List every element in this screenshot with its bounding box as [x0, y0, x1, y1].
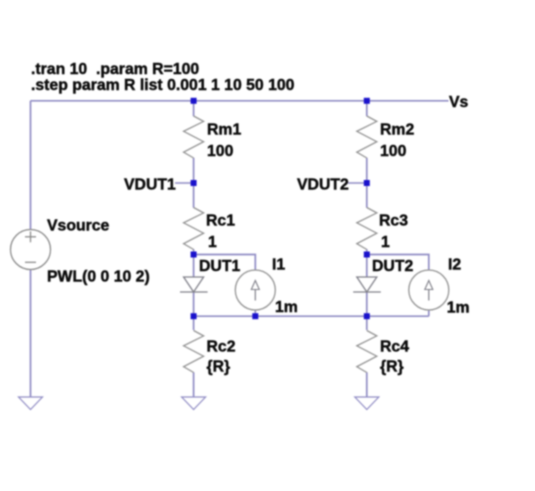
node top branch2 — [364, 98, 370, 104]
svg-text:1: 1 — [381, 234, 390, 251]
svg-text:DUT2: DUT2 — [372, 258, 413, 275]
svg-text:100: 100 — [380, 143, 407, 160]
resistor Rm2 — [357, 116, 377, 158]
svg-text:1: 1 — [208, 234, 217, 251]
wire left vertical lower — [30, 270, 32, 397]
svg-text:Rc4: Rc4 — [380, 339, 409, 356]
svg-text:Vs: Vs — [449, 94, 469, 111]
wire Rm2 to Rc3 through node VDUT2 — [366, 158, 368, 208]
wire Rc4 to ground — [366, 372, 368, 397]
wire VDUT2 label stub — [348, 182, 364, 184]
svg-text:.tran 10 .param R=100: .tran 10 .param R=100 — [31, 61, 199, 78]
resistor Rc3 — [357, 208, 377, 250]
resistor Rm1 — [184, 116, 204, 158]
wire branch2 top to Rm2 — [366, 101, 368, 116]
wire I2 hook — [367, 255, 429, 271]
wire Rc3 to DUT2 anode — [366, 249, 368, 277]
node branch2 mid — [364, 252, 370, 258]
wire I2 bottom stub — [428, 310, 430, 316]
svg-text:{R}: {R} — [380, 359, 404, 376]
node top branch1 — [191, 98, 197, 104]
svg-text:Rm2: Rm2 — [380, 122, 414, 139]
wire bottom rail — [194, 315, 429, 317]
node branch2 bottom — [364, 313, 370, 319]
svg-text:PWL(0 0 10 2): PWL(0 0 10 2) — [47, 269, 150, 286]
wire DUT1 cathode to bottom rail — [193, 292, 195, 330]
node branch1 bottom — [191, 313, 197, 319]
wire I1 hook — [194, 255, 256, 271]
svg-text:Rc1: Rc1 — [206, 213, 235, 230]
svg-text:DUT1: DUT1 — [199, 258, 240, 275]
wire I1 bottom stub — [254, 310, 256, 316]
svg-text:1m: 1m — [275, 299, 298, 316]
wire DUT2 cathode to bottom rail — [366, 292, 368, 330]
node VDUT2 — [364, 180, 370, 186]
ground below Vsource — [19, 397, 43, 410]
wire Rc2 to ground — [193, 372, 195, 397]
wire VDUT1 label stub — [175, 182, 191, 184]
svg-text:.step param R list 0.001 1 10: .step param R list 0.001 1 10 50 100 — [31, 77, 295, 94]
wire Rm1 to Rc1 through node VDUT1 — [193, 158, 195, 208]
resistor Rc2 — [184, 331, 204, 373]
wire top rail Vs — [31, 100, 449, 102]
svg-text:Rc3: Rc3 — [379, 213, 408, 230]
current source I1 — [235, 270, 275, 310]
voltage source Vsource — [11, 230, 51, 270]
node I1 bottom — [252, 313, 258, 319]
svg-text:VDUT2: VDUT2 — [297, 177, 349, 194]
svg-text:Rm1: Rm1 — [207, 122, 241, 139]
current source I2 — [409, 270, 449, 310]
svg-text:VDUT1: VDUT1 — [124, 177, 176, 194]
resistor Rc1 — [184, 208, 204, 250]
resistor Rc4 — [357, 331, 377, 373]
svg-text:Rc2: Rc2 — [207, 339, 236, 356]
wire Rc1 to DUT1 anode — [193, 249, 195, 277]
ground below Rc4 — [355, 397, 379, 410]
node branch1 mid — [191, 252, 197, 258]
svg-text:I1: I1 — [272, 257, 285, 274]
ground below Rc2 — [182, 397, 206, 410]
diode DUT2 — [353, 277, 381, 292]
svg-text:Vsource: Vsource — [47, 218, 110, 235]
svg-text:{R}: {R} — [207, 359, 231, 376]
diode DUT1 — [180, 277, 208, 292]
wire left vertical upper — [30, 101, 32, 230]
svg-text:1m: 1m — [447, 300, 470, 317]
svg-text:I2: I2 — [448, 257, 461, 274]
svg-text:100: 100 — [207, 143, 234, 160]
node VDUT1 — [191, 180, 197, 186]
wire branch1 top to Rm1 — [193, 101, 195, 116]
